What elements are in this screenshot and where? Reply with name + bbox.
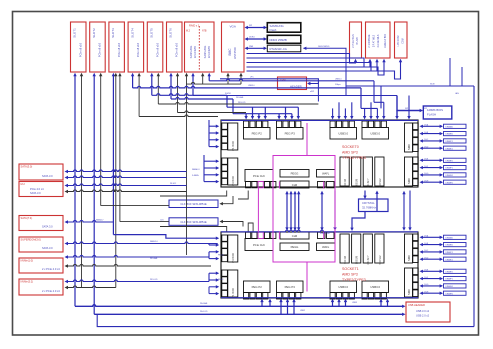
wire PEG stub bus lo	[233, 113, 292, 115]
svg-text:SMC: SMC	[407, 178, 411, 184]
svg-text:BIOS/B: BIOS/B	[356, 256, 359, 265]
wire stub into socket1 bottom	[286, 299, 289, 315]
wire stub into socket1 bottom	[331, 299, 334, 307]
wire storage row	[65, 280, 210, 283]
svg-text:DIMMD1: DIMMD1	[446, 259, 453, 261]
block SAMSUNG Flash	[267, 23, 301, 33]
wire BMC to rear IO	[247, 54, 358, 64]
wire right vertical bus	[473, 86, 475, 327]
wire stub into socket1 bottom	[260, 299, 263, 307]
svg-text:PEG P2: PEG P2	[252, 132, 263, 136]
svg-text:PEG P2: PEG P2	[252, 285, 263, 289]
svg-text:SIO X6: SIO X6	[344, 178, 347, 187]
svg-text:1GbE LP B00: 1GbE LP B00	[385, 33, 387, 48]
svg-text:USB3: USB3	[352, 302, 357, 304]
wire storage row	[65, 184, 187, 187]
block PEGG P456 socket0	[280, 170, 309, 189]
wire BMC aux descent 1	[449, 58, 451, 86]
svg-text:SATA 3.0: SATA 3.0	[42, 174, 53, 178]
svg-text:USB 2.0 x2: USB 2.0 x2	[416, 314, 430, 318]
svg-text:2 1000BASE: 2 1000BASE	[368, 34, 371, 48]
wire vertical feed 18	[226, 73, 229, 84]
svg-text:SUPERDOM(3:0): SUPERDOM(3:0)	[21, 238, 41, 242]
wire NVMe32 bracket to socket1	[209, 272, 219, 282]
svg-text:2 A GE WLS: 2 A GE WLS	[377, 34, 380, 47]
svg-text:BIOS/B: BIOS/B	[356, 179, 359, 188]
svg-text:USB HEADER: USB HEADER	[408, 303, 425, 307]
svg-text:PE3-C/D: PE3-C/D	[238, 102, 246, 104]
port group PEG P2 socket1	[244, 281, 271, 299]
svg-text:DIMMA1: DIMMA1	[446, 236, 453, 239]
wire NCSI bus right	[346, 85, 474, 87]
svg-text:S-SATA: S-SATA	[192, 174, 199, 177]
block PCIe CLK socket1	[245, 232, 276, 250]
svg-text:SRIS 9.0x4: SRIS 9.0x4	[320, 233, 330, 235]
svg-text:CLK: CLK	[160, 219, 164, 221]
wire bus along socket0 top edge	[221, 119, 418, 121]
block TPM header	[278, 77, 307, 90]
svg-text:SGPIO: SGPIO	[225, 93, 232, 95]
wire stub into socket1 bottom	[268, 299, 271, 307]
wire clock socket1 to CLK BUF2	[160, 220, 253, 232]
block DDR4 256MB	[267, 35, 301, 43]
svg-text:SATA(3:0): SATA(3:0)	[21, 165, 33, 169]
wire stub into socket0 USB3 (lo)	[363, 108, 366, 119]
svg-text:CH-G: CH-G	[424, 284, 429, 286]
wire inter-socket right link 2	[408, 191, 411, 231]
svg-text:SIO M.2: SIO M.2	[379, 255, 382, 265]
wire BMC aux descent 2	[461, 67, 463, 86]
wire stub into socket1 bottom	[386, 299, 389, 307]
wire M.2 eSPI black run	[187, 83, 242, 85]
svg-text:DIMMD1: DIMMD1	[446, 148, 453, 150]
wire BMC to rear IO	[247, 58, 372, 67]
svg-text:PCIe x8 x16: PCIe x8 x16	[136, 42, 140, 57]
svg-text:USB 3.0 x2: USB 3.0 x2	[416, 309, 430, 313]
svg-text:SATA0-3: SATA0-3	[192, 168, 199, 171]
DIMM slot socket1 ch1	[420, 243, 467, 247]
block SLOT3 PCIe x8 slot	[109, 22, 125, 72]
svg-text:PE1-C/D: PE1-C/D	[150, 279, 158, 281]
wire xGMI link	[289, 191, 292, 231]
svg-text:USB3.0: USB3.0	[370, 285, 380, 289]
wire stub into socket1 bottom	[379, 299, 382, 307]
wire PEG stub bus hi	[227, 106, 298, 108]
block M.2 RAID x1 dual sockets	[185, 22, 215, 72]
port group P1 WIO socket1	[222, 270, 238, 298]
DIMM slot socket1 ch4	[420, 269, 467, 273]
svg-text:P1 WIO: P1 WIO	[231, 140, 235, 151]
svg-text:USB3.0: USB3.0	[248, 85, 255, 87]
block SLOT1 PCIe x8 slot	[71, 22, 87, 72]
svg-text:COM: COM	[402, 38, 405, 44]
svg-text:NVMe(3:2): NVMe(3:2)	[21, 280, 34, 284]
svg-text:PE M.2: PE M.2	[170, 183, 176, 185]
svg-text:CK 32.7: CK 32.7	[367, 178, 370, 188]
wire BMC to rear IO	[247, 59, 403, 79]
svg-text:NVMe(1:0): NVMe(1:0)	[21, 259, 34, 263]
svg-text:PCIe CLK: PCIe CLK	[253, 243, 265, 247]
wire crystal to sockets	[350, 191, 378, 232]
svg-text:CRYSTAL: CRYSTAL	[362, 201, 375, 205]
wire stub into socket0 PEG (lo)	[290, 114, 293, 120]
block CLK BUF 9ZXL0851 #1	[169, 200, 218, 208]
DIMM slot socket1 ch6	[420, 284, 467, 288]
svg-text:DIMMF1: DIMMF1	[446, 168, 453, 170]
wire storage row	[65, 190, 187, 193]
svg-text:SMC: SMC	[407, 144, 411, 150]
svg-text:PCIe 4.0 x4: PCIe 4.0 x4	[30, 187, 44, 191]
svg-text:USB3.0: USB3.0	[338, 132, 348, 136]
svg-text:SPI: SPI	[424, 108, 428, 110]
wire stub into socket0 USB3 (hi)	[369, 102, 372, 119]
magenta tick 3	[323, 182, 325, 189]
block SIO M.2 socket1	[375, 234, 384, 265]
wire stub into socket0 PEG (lo)	[257, 114, 260, 120]
svg-text:22110/2280: 22110/2280	[195, 45, 197, 58]
wire USB stub bus lo	[361, 107, 377, 109]
wire vertical feed 17	[208, 73, 211, 81]
svg-text:DIMME1: DIMME1	[446, 160, 453, 162]
block USB header	[406, 302, 450, 322]
svg-text:SLOT2: SLOT2	[92, 28, 96, 38]
socket U1 AMD SP3	[221, 232, 418, 298]
wire stub into socket1 bottom	[292, 299, 295, 315]
svg-text:M.2: M.2	[21, 182, 26, 186]
DIMM slot socket0 ch2	[420, 139, 467, 143]
block CK 32.7 socket1	[363, 234, 372, 265]
svg-text:PE1-A: PE1-A	[218, 253, 224, 256]
wire BMC to memory/phy SPI	[245, 25, 268, 29]
wire BMC to memory/phy DDR4	[245, 37, 268, 41]
block PCIe CLK socket0	[245, 170, 276, 188]
block CK 32.7 socket0	[363, 157, 372, 188]
port group USB3.0 socket1	[330, 281, 357, 299]
wire SPI to BIOS flash	[395, 96, 423, 120]
wire vertical feed 6	[114, 73, 117, 288]
magenta stub lower	[306, 262, 308, 292]
svg-text:PEG P3: PEG P3	[285, 132, 296, 136]
svg-text:SMC: SMC	[407, 289, 411, 295]
svg-text:PEGG: PEGG	[291, 245, 299, 249]
magenta tick 2	[278, 232, 280, 240]
svg-text:ATB: ATB	[202, 30, 207, 33]
svg-text:LAN: LAN	[455, 92, 459, 95]
magenta stub upper	[306, 123, 308, 156]
svg-text:SATA4-7: SATA4-7	[96, 218, 103, 221]
wire stub into socket0 USB3 (lo)	[344, 108, 347, 119]
port group USB3.0 socket0	[362, 121, 389, 139]
svg-text:eSPI: eSPI	[310, 91, 315, 93]
wire BMC to memory/phy RMII	[245, 46, 268, 50]
block NVMe(1:0) connector	[19, 258, 63, 273]
magenta clock link between sockets	[257, 188, 259, 232]
svg-text:TYPE2/TYPE3: TYPE2/TYPE3	[342, 278, 366, 282]
svg-text:P4 WIO: P4 WIO	[231, 252, 235, 263]
port group USB3.0 socket1	[362, 281, 389, 299]
svg-text:PCIe x8 x16: PCIe x8 x16	[117, 42, 121, 57]
block M.2 connector	[19, 182, 63, 197]
wire vertical feed 1	[73, 73, 76, 306]
svg-text:22110/2280: 22110/2280	[209, 45, 211, 58]
svg-text:SATA(7:4): SATA(7:4)	[21, 216, 33, 220]
svg-text:SLOT4: SLOT4	[130, 28, 134, 38]
wire xGMI link	[293, 191, 296, 231]
svg-text:CLK BUF 9ZXL0851E: CLK BUF 9ZXL0851E	[180, 202, 206, 206]
port group P4 WIO socket0	[222, 158, 238, 186]
magenta tick 4	[323, 232, 325, 240]
block BIOS/B socket1	[352, 234, 361, 264]
svg-text:PCIe x8 x16: PCIe x8 x16	[155, 42, 159, 57]
svg-text:DEDICATED: DEDICATED	[318, 45, 330, 48]
port group SMC DIMM ch socket1	[405, 234, 419, 263]
wire NVMe10 bracket to socket1	[209, 250, 219, 260]
port group PEG P3 socket0	[277, 121, 304, 139]
block rear USB ports	[350, 22, 362, 58]
wire storage row	[65, 255, 210, 258]
wire stub into socket0 USB3 (hi)	[350, 102, 353, 119]
svg-text:PCIe x8 x16: PCIe x8 x16	[175, 42, 179, 57]
wire inter-socket right link 1	[333, 191, 336, 231]
svg-text:SLOT6: SLOT6	[169, 28, 173, 38]
wire xGMI link	[297, 191, 300, 231]
svg-text:CH6: CH6	[292, 234, 298, 238]
DIMM slot socket0 ch4	[420, 158, 467, 162]
wire BMC to rear IO	[247, 59, 386, 75]
svg-text:128Mb BIOS: 128Mb BIOS	[427, 108, 443, 112]
wire slot4 black run	[139, 115, 218, 117]
svg-text:DIMMH1: DIMMH1	[446, 293, 453, 295]
wire slot2 black to CLK BUF1	[101, 205, 169, 207]
wire bottom PCIe run A	[75, 305, 406, 308]
wire bus along socket1 bottom edge	[221, 297, 418, 299]
port group PEG P3 socket1	[277, 281, 304, 299]
DIMM slot socket1 ch2	[420, 250, 467, 254]
svg-text:RAID x 1: RAID x 1	[189, 24, 200, 28]
block NVMe(3:2) connector	[19, 279, 63, 295]
svg-text:AMD SP3: AMD SP3	[342, 273, 358, 277]
svg-text:CH-F: CH-F	[424, 166, 428, 168]
magenta tick 1	[278, 182, 280, 189]
wire stub into socket0 PEG (lo)	[244, 114, 247, 120]
block SATA(3:0) connector	[19, 164, 63, 180]
magenta clock square socket1	[258, 232, 263, 238]
block SLOT4 PCIe x8 slot	[128, 22, 144, 72]
port group SMC DIMM ch socket0	[405, 157, 419, 186]
svg-text:SATA 3.0: SATA 3.0	[42, 225, 53, 229]
wire vertical feed 8	[131, 73, 134, 88]
wire xGMI link wide	[320, 191, 323, 231]
block SLOT5 PCIe x8 slot	[147, 22, 163, 72]
wire storage row	[65, 242, 218, 245]
svg-text:DIMMC1: DIMMC1	[446, 141, 453, 143]
wire vertical feed 5	[112, 73, 115, 235]
wire slot3 black to CLK BUF2	[120, 221, 169, 223]
block crystal 32.768KHz	[359, 199, 389, 212]
svg-text:SLOT1: SLOT1	[73, 28, 77, 38]
svg-text:PCIe x8 x16: PCIe x8 x16	[79, 42, 83, 57]
DIMM slot socket0 ch3	[420, 146, 467, 150]
block SIO X6 socket0	[340, 157, 349, 187]
wire USB stub bus hi	[374, 101, 384, 103]
svg-text:AMD SP3: AMD SP3	[342, 151, 358, 155]
wire superdom row into socket1	[209, 244, 218, 246]
svg-text:DIMMG1: DIMMG1	[446, 286, 454, 288]
svg-text:2 P RE WLS: 2 P RE WLS	[352, 34, 355, 48]
svg-text:P1 WIO: P1 WIO	[231, 287, 235, 298]
port group P1 WIO socket0	[222, 123, 238, 151]
block 128Mb BIOS flash	[423, 106, 452, 119]
socket U0 AMD SP3	[221, 120, 418, 187]
wire BMC to rear IO	[247, 59, 379, 71]
DIMM slot socket0 ch1	[420, 132, 467, 136]
svg-text:CK 32.7: CK 32.7	[367, 255, 370, 265]
svg-text:2 P AT WLS: 2 P AT WLS	[373, 34, 376, 47]
block SATA(7:4) connector	[19, 216, 63, 231]
svg-text:SOCKET0: SOCKET0	[342, 145, 359, 149]
wire stub into socket0 USB3 (lo)	[331, 108, 334, 119]
wire stub into socket0 USB3 (hi)	[337, 102, 340, 119]
svg-text:RMII: RMII	[249, 46, 254, 48]
wire LPC to TPM header	[220, 79, 318, 102]
svg-text:CH-F: CH-F	[424, 277, 428, 279]
wire vertical feed 19	[239, 73, 242, 84]
port group USB3.0 socket0	[330, 121, 357, 139]
svg-text:FLASH: FLASH	[427, 113, 436, 117]
wire stub into socket0 USB3 (hi)	[382, 102, 385, 119]
wire storage row	[65, 176, 187, 179]
svg-text:P4 WIO: P4 WIO	[231, 175, 235, 186]
wire storage row	[65, 264, 212, 267]
block rear COM port	[395, 22, 408, 58]
svg-text:TYPE2/TYPE3: TYPE2/TYPE3	[342, 156, 366, 160]
wire slot5 blue to PEG bus hi	[152, 94, 227, 108]
wire stub into socket1 bottom	[344, 299, 347, 307]
block SIO X6 socket1	[340, 234, 349, 264]
svg-text:SIO X6: SIO X6	[344, 255, 347, 264]
wire bottom BMC return	[97, 314, 474, 326]
wire vertical feed 12	[169, 73, 172, 99]
wire socket0 WIO group1 feeds	[209, 120, 219, 148]
svg-text:USB3.0: USB3.0	[338, 285, 348, 289]
block WAFL socket0	[317, 170, 336, 188]
block SIO M.2 socket0	[375, 157, 384, 188]
svg-text:SPI: SPI	[249, 25, 253, 27]
wire stub into socket0 USB3 (lo)	[376, 108, 379, 119]
wire M.2 blue2 to USB hi bus	[209, 79, 374, 102]
svg-text:SATA 3.0: SATA 3.0	[42, 246, 53, 250]
DIMM slot socket0 ch5	[420, 166, 467, 170]
block SLOT2 PCIe x8 slot	[90, 22, 106, 72]
svg-text:CH-G: CH-G	[424, 173, 429, 175]
svg-text:SAMSUNG: SAMSUNG	[190, 46, 193, 59]
wire vertical feed 9	[137, 73, 140, 117]
wire vertical feed 13	[176, 73, 179, 113]
wire vertical feed 16	[201, 73, 204, 84]
svg-text:DIMMC1: DIMMC1	[446, 252, 453, 254]
DIMM slot socket0 ch6	[420, 173, 467, 177]
wire stub into socket0 PEG (hi)	[251, 107, 254, 119]
wire dedicated LAN into RTL8211F	[303, 45, 346, 96]
svg-text:B USB: B USB	[356, 37, 359, 45]
svg-text:CH6: CH6	[292, 183, 298, 187]
block SUPERDOM(3:0) connector	[19, 237, 63, 252]
svg-text:SIO M.2: SIO M.2	[379, 178, 382, 188]
svg-text:WAFL: WAFL	[322, 245, 330, 249]
wire stub into socket1 bottom	[337, 299, 340, 307]
svg-text:DIMMF1: DIMMF1	[446, 279, 453, 281]
wire slot3 blue to socket1 WIO row1	[113, 235, 219, 240]
wire vertical feed 4	[99, 73, 102, 206]
svg-text:WAFL: WAFL	[322, 172, 330, 176]
block RTL8211F-CG PHY	[267, 45, 301, 52]
port group SMC DIMM ch socket1	[405, 268, 419, 297]
block BMC AST2500 with VGA	[222, 22, 245, 72]
svg-text:PE3-A/B: PE3-A/B	[236, 96, 244, 99]
svg-text:USB2.0: USB2.0	[335, 79, 342, 81]
block rear LAN/USB stack	[366, 22, 391, 58]
wire slot4 blue to USB stub bus	[133, 86, 361, 108]
svg-text:SAMSUNG: SAMSUNG	[204, 46, 207, 59]
port group SMC DIMM ch socket0	[405, 123, 419, 152]
wire r2 drop to USB bus	[380, 86, 382, 108]
svg-text:PCIe CLK: PCIe CLK	[253, 174, 265, 178]
svg-text:DIMMA1: DIMMA1	[446, 125, 453, 128]
svg-text:DIMMB1: DIMMB1	[446, 134, 453, 136]
wire inter-socket right link 3	[402, 191, 405, 231]
wire stub into socket0 PEG (hi)	[297, 107, 300, 119]
wire stub into socket1 bottom	[279, 299, 282, 315]
svg-text:DIMMB1: DIMMB1	[446, 245, 453, 247]
label SOCKET1 AMD SP3	[342, 267, 366, 282]
wire vertical feed 3	[93, 73, 96, 314]
svg-text:BMC: BMC	[228, 48, 232, 56]
DIMM slot socket0 ch7	[420, 180, 467, 184]
svg-text:USB3.0: USB3.0	[370, 132, 380, 136]
svg-text:DDR4 256MB: DDR4 256MB	[270, 38, 287, 42]
wire slot6 blue to PEG bus lo	[171, 97, 233, 113]
block WAFL socket1	[317, 232, 336, 250]
wire SGPIO run	[193, 95, 397, 97]
svg-text:PE1-C: PE1-C	[218, 279, 224, 281]
block BIOS/B socket0	[352, 157, 361, 187]
block PEGG P456 socket1	[280, 232, 309, 251]
svg-text:2 x PCIe 4.0 x4: 2 x PCIe 4.0 x4	[42, 267, 60, 271]
DIMM slot socket0 ch0	[420, 124, 467, 129]
svg-text:SMC: SMC	[407, 255, 411, 261]
wire slot6 black run	[178, 111, 247, 113]
wire clock socket0 to CLK BUF1	[160, 191, 248, 206]
svg-text:PEG P3: PEG P3	[285, 285, 296, 289]
svg-text:M.2: M.2	[186, 30, 191, 33]
svg-text:SATA 3.0: SATA 3.0	[150, 240, 158, 243]
svg-text:PE1-A/B: PE1-A/B	[150, 257, 158, 260]
svg-text:LPC: LPC	[250, 77, 254, 79]
port group PEG P2 socket0	[244, 121, 271, 139]
wire vertical feed 15	[191, 73, 194, 96]
DIMM slot socket1 ch5	[420, 277, 467, 281]
label SOCKET0 AMD SP3	[342, 145, 366, 160]
svg-text:SOCKET1: SOCKET1	[342, 267, 359, 271]
svg-text:SLOT3: SLOT3	[111, 28, 115, 38]
wire bottom PCIe run B	[94, 313, 405, 316]
svg-text:VGA: VGA	[230, 25, 236, 29]
svg-text:AST2500: AST2500	[233, 47, 237, 59]
wire bus along socket1 top edge	[221, 230, 418, 232]
svg-text:CLK BUF 9ZXL0851E: CLK BUF 9ZXL0851E	[180, 220, 206, 224]
magenta xGMI bus box	[273, 156, 335, 263]
DIMM slot socket1 ch3	[420, 257, 467, 261]
